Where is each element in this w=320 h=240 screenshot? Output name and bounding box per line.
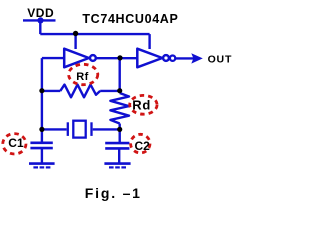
red circle around Rd xyxy=(130,95,157,114)
ground under C2 xyxy=(104,162,130,165)
resistor Rd xyxy=(110,93,129,124)
capacitor C1 bottom plate xyxy=(30,147,52,150)
wire OUT xyxy=(175,57,194,59)
capacitor C2 top plate xyxy=(105,142,129,145)
crystal X1 body xyxy=(73,121,85,138)
wire Rd bottom lead xyxy=(118,124,120,144)
svg-text:Rd: Rd xyxy=(132,98,151,113)
svg-text:C1: C1 xyxy=(8,136,24,150)
wire crystal left lead xyxy=(42,128,67,130)
red circle around Rf xyxy=(69,64,98,84)
capacitor C1 top plate xyxy=(30,142,52,145)
op-amp U2 inverter triangle xyxy=(137,49,162,68)
wire inverter1 output xyxy=(96,57,137,59)
ground under C1 xyxy=(29,162,55,165)
node junction Rf/Rd xyxy=(117,88,122,93)
svg-text:Fig. –1: Fig. –1 xyxy=(85,185,142,201)
svg-text:C2: C2 xyxy=(135,139,151,153)
resistor Rf xyxy=(60,85,100,98)
svg-text:VDD: VDD xyxy=(27,6,54,20)
wire C1 to ground xyxy=(41,148,43,164)
svg-text:Rf: Rf xyxy=(76,71,89,83)
wire inverter1 input xyxy=(42,57,64,59)
capacitor C2 bottom plate xyxy=(105,147,129,150)
node junction input/Rf xyxy=(39,88,44,93)
op-amp U2 output bubble xyxy=(163,55,169,61)
op-amp U1 inverter triangle xyxy=(64,49,89,68)
node output terminal circle xyxy=(170,56,175,61)
wire VDD to rail xyxy=(39,20,41,34)
node VDD terminal dot xyxy=(37,17,43,23)
svg-text:OUT: OUT xyxy=(208,54,233,66)
node junction crystal/Rd/C2 xyxy=(117,127,122,132)
OUT arrowhead xyxy=(191,53,203,63)
wire inverter1 power drop xyxy=(74,34,76,49)
node junction inverter1 output xyxy=(117,55,122,60)
crystal X1 right plate xyxy=(90,122,92,136)
red circle around C2 xyxy=(131,134,150,153)
wire Rf left lead xyxy=(42,90,60,92)
wire left vertical input node xyxy=(41,58,43,143)
wire top rail xyxy=(40,33,149,35)
node junction rail/inv1 power xyxy=(73,31,78,36)
crystal X1 left plate xyxy=(67,122,69,136)
wire C2 to ground xyxy=(118,148,120,163)
wire inverter2 power drop xyxy=(148,34,150,49)
node junction crystal/C1 xyxy=(39,127,44,132)
red circle around C1 xyxy=(3,134,26,154)
svg-text:TC74HCU04AP: TC74HCU04AP xyxy=(82,12,178,26)
wire crystal right lead xyxy=(93,128,120,130)
wire Rf right lead xyxy=(100,90,120,92)
op-amp U1 output bubble xyxy=(90,55,96,61)
wire output node vertical xyxy=(118,58,120,93)
VDD stub wire xyxy=(23,19,56,21)
